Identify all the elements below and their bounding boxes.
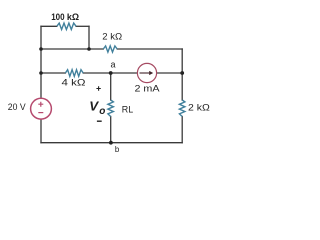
svg-text:a: a bbox=[110, 60, 115, 70]
wire: right rail lower bbox=[181, 117, 183, 143]
svg-text:100: 100 bbox=[51, 12, 64, 23]
svg-text:20 V: 20 V bbox=[8, 102, 27, 112]
node a dot bbox=[109, 71, 113, 75]
svg-text:kΩ: kΩ bbox=[67, 12, 80, 23]
wire: 100k box right edge bbox=[88, 26, 90, 49]
wire: top edge of 100k box, right stub bbox=[76, 25, 89, 27]
wire: left rail upper (top corner to 20V source top) bbox=[40, 26, 42, 98]
node dot: box right corner junction bbox=[87, 47, 91, 51]
wire: middle rail from current source to right rail bbox=[157, 72, 183, 74]
resistor 100 kOhm zigzag bbox=[57, 23, 76, 29]
resistor RL zigzag bbox=[108, 100, 114, 117]
svg-text:2 mA: 2 mA bbox=[135, 83, 161, 93]
wire: rail y=49 from left rail to 2k resistor bbox=[41, 48, 103, 50]
svg-text:b: b bbox=[115, 145, 120, 154]
svg-text:4 kΩ: 4 kΩ bbox=[62, 78, 86, 88]
wire: node a down to RL bbox=[110, 73, 112, 100]
voltage source minus sign bbox=[38, 112, 43, 114]
voltage source 20V circle bbox=[31, 98, 52, 119]
resistor 2 kOhm (top) zigzag bbox=[103, 46, 117, 52]
resistor 2 kOhm (right) zigzag bbox=[179, 100, 185, 117]
wire: middle rail from 4k to current source bbox=[83, 72, 137, 74]
wire: left rail lower (20V source bottom to bottom rail) bbox=[40, 119, 42, 143]
resistor 4 kOhm zigzag bbox=[65, 70, 83, 77]
svg-text:RL: RL bbox=[122, 104, 133, 114]
svg-text:2 kΩ: 2 kΩ bbox=[188, 103, 210, 113]
wire: RL down to node b bbox=[110, 117, 112, 143]
voltage source plus sign bbox=[38, 102, 43, 107]
current source 2mA circle bbox=[137, 63, 156, 82]
label Vo minus bbox=[97, 120, 102, 122]
node dot: left rail / middle rail junction bbox=[39, 71, 43, 75]
wire: right rail upper bbox=[181, 49, 183, 100]
wire: bottom rail bbox=[41, 142, 182, 144]
label Vo plus bbox=[96, 86, 100, 90]
node dot: right rail / middle rail junction bbox=[180, 71, 184, 75]
node b dot bbox=[109, 141, 113, 145]
current source arrow bbox=[140, 72, 150, 74]
wire: top edge of 100k box, left stub bbox=[41, 25, 57, 27]
wire: middle rail from left rail to 4k bbox=[41, 72, 65, 74]
wire: rail y=49 from 2k resistor to right rail bbox=[117, 48, 182, 50]
svg-text:2 kΩ: 2 kΩ bbox=[102, 31, 122, 41]
node dot: left rail / box bottom junction bbox=[39, 47, 43, 51]
